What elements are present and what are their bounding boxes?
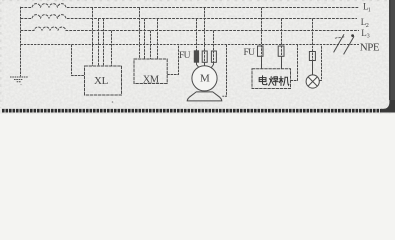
fuse FU welder phase 1 xyxy=(258,46,264,56)
fuse FU motor phase 1 xyxy=(194,51,198,62)
fuse FU welder phase 2 xyxy=(278,46,284,56)
wire fuse 2 to motor xyxy=(204,62,206,66)
page corner joining bar to right band xyxy=(381,96,395,113)
lamp EL xyxy=(306,75,319,88)
wire L1 to box XM xyxy=(139,8,141,60)
page bottom rule (thick dotted bar) xyxy=(2,109,386,113)
svg-text:NPE: NPE xyxy=(360,42,380,54)
wire L1 to welder fuse 1 xyxy=(261,8,263,56)
ground (system earthing at source) xyxy=(10,77,28,82)
phase line L2 with source winding xyxy=(21,15,358,19)
svg-text:3: 3 xyxy=(367,33,370,40)
motor base xyxy=(187,92,222,101)
wire fuse 1 to motor xyxy=(197,62,200,68)
wire to box XL xyxy=(103,19,105,67)
junction dot on slash xyxy=(351,34,354,37)
page right edge band xyxy=(389,0,395,100)
paper background xyxy=(0,0,395,114)
焊 xyxy=(269,77,272,86)
scan frame top edge xyxy=(2,0,388,2)
wire L3 to motor fuse 3 xyxy=(213,31,215,63)
phase line L3 with source winding xyxy=(21,27,360,31)
label 电焊机 (hand drawn strokes) xyxy=(259,76,289,86)
fuse FU lamp xyxy=(309,52,315,61)
wire welder fuse 1 to box xyxy=(261,56,263,69)
scan frame left edge xyxy=(0,2,2,108)
svg-text:1: 1 xyxy=(368,6,371,13)
left supply bus vertical xyxy=(20,7,22,77)
fuse FU motor phase 2 xyxy=(202,51,207,62)
wire to box XM xyxy=(157,19,159,60)
motor M xyxy=(192,66,217,91)
svg-text:XM: XM xyxy=(143,74,160,85)
svg-text:M: M xyxy=(200,73,210,85)
svg-text:XL: XL xyxy=(94,75,109,87)
PE wire from N/PE line into left side of box XL xyxy=(72,45,85,76)
distribution box XL xyxy=(85,66,122,95)
PE wire from right side of box XM up to N/PE line xyxy=(167,45,178,75)
wire welder fuse 2 to box xyxy=(281,56,283,69)
distribution box XM xyxy=(134,59,167,84)
neutral wire from lamp to N/PE line xyxy=(319,45,321,81)
label L1 xyxy=(94,2,380,88)
wire L2 to motor fuse 1 xyxy=(196,19,198,63)
welding machine box xyxy=(252,69,291,89)
PE wire from N/PE line to motor frame xyxy=(222,45,226,97)
wire lamp fuse to lamp xyxy=(312,61,314,76)
机 xyxy=(280,76,282,85)
wire L2 to box XL xyxy=(98,19,100,67)
wire L2 to box XM xyxy=(144,19,146,60)
wire L3 to box XM xyxy=(150,31,152,60)
wire L1 to motor fuse 2 xyxy=(204,8,206,63)
svg-text:FU: FU xyxy=(244,48,256,58)
conductor count slash marks on N/PE line xyxy=(334,34,344,52)
svg-text:FU: FU xyxy=(179,51,191,61)
phase line L1 with source winding xyxy=(21,4,360,8)
wire fuse 3 to motor xyxy=(211,62,214,68)
wire L3 to box XL xyxy=(111,31,113,67)
paper speck xyxy=(20,84,21,85)
电 xyxy=(263,76,267,85)
combined N/PE line xyxy=(21,44,360,46)
paper speck xyxy=(112,101,114,103)
PE wire from welder box to N/PE line xyxy=(291,45,298,81)
wire L2 to welder fuse 2 xyxy=(281,19,283,56)
fuse FU motor phase 3 xyxy=(211,51,216,62)
wire L1 to box XL xyxy=(92,8,94,67)
wire L2 to lamp fuse xyxy=(312,19,314,61)
